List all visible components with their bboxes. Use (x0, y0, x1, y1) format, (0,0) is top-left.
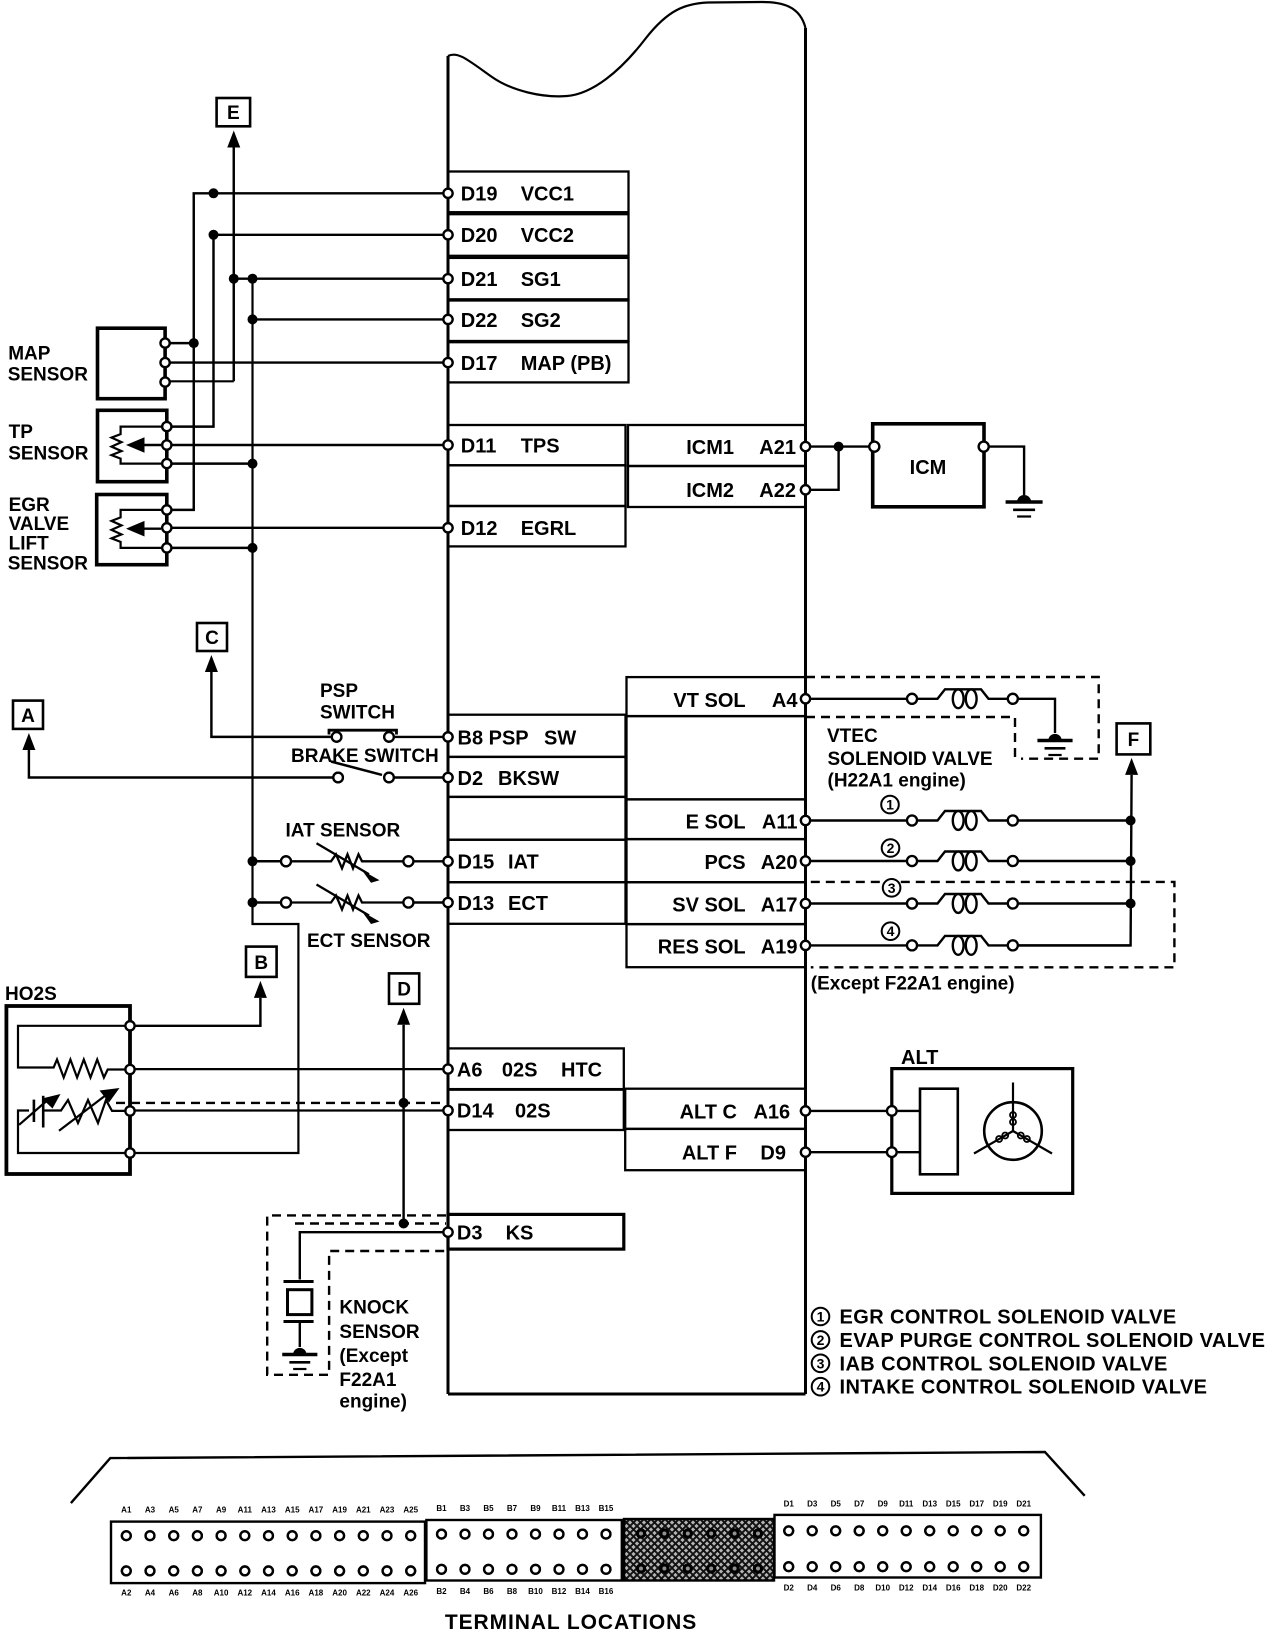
ECM row box (blank) (448, 797, 626, 840)
svg-text:2: 2 (817, 1332, 825, 1348)
connector ref C (197, 623, 227, 651)
svg-text:A3: A3 (145, 1506, 156, 1515)
pin A21 (801, 442, 810, 451)
svg-text:D4: D4 (807, 1584, 818, 1593)
pin A17 (801, 899, 810, 908)
svg-text:F: F (1128, 730, 1140, 751)
svg-text:PCS: PCS (704, 852, 745, 874)
wire B to HO2S pin1 (134, 998, 260, 1026)
terminal box A6 02S HTC (448, 1048, 624, 1089)
junction SG rail / EGR pin3 (248, 543, 258, 553)
VTEC dashed enclosure (806, 677, 1099, 759)
ICM ground (1017, 495, 1031, 502)
pin A22 (801, 485, 810, 494)
connector ref E (217, 98, 251, 126)
terminal box D20 VCC2 (448, 214, 629, 256)
svg-text:ICM: ICM (910, 457, 947, 479)
connector C block (shaded, not used) (624, 1519, 774, 1581)
MAP sensor box (98, 328, 166, 399)
svg-text:D17: D17 (969, 1500, 984, 1509)
pin D20 (443, 230, 452, 239)
svg-text:A8: A8 (192, 1589, 203, 1598)
wire A21 to ICM (806, 445, 870, 447)
pin B8 (443, 732, 452, 741)
terminal box ALT C A16 (625, 1089, 805, 1129)
svg-text:VTEC: VTEC (827, 726, 878, 747)
svg-text:TPS: TPS (521, 435, 560, 457)
svg-text:D11: D11 (461, 435, 497, 457)
HO2S heater resistor (18, 1026, 126, 1078)
svg-text:VCC1: VCC1 (521, 184, 574, 206)
svg-text:(H22A1 engine): (H22A1 engine) (828, 770, 966, 791)
svg-text:D15: D15 (946, 1500, 961, 1509)
svg-text:PSP: PSP (320, 681, 358, 702)
connector panel outline (71, 1452, 1085, 1503)
terminal box ICM2 A22 (628, 466, 806, 507)
svg-text:A14: A14 (261, 1589, 276, 1598)
junction A21/A22 (834, 442, 844, 452)
svg-text:MAP: MAP (8, 343, 51, 364)
svg-text:D16: D16 (946, 1584, 961, 1593)
pin D12 (443, 523, 452, 532)
connector D block (775, 1515, 1041, 1578)
svg-text:A19: A19 (332, 1506, 347, 1515)
wire D21 SG1 row (234, 278, 448, 280)
svg-text:D11: D11 (899, 1500, 914, 1509)
svg-text:B13: B13 (575, 1504, 590, 1513)
EGR pin 3 (162, 543, 171, 552)
wire MAP pin2 to D17 (165, 361, 448, 363)
svg-text:D17: D17 (461, 353, 498, 375)
svg-text:VALVE: VALVE (9, 514, 70, 535)
terminal box VT SOL A4 (627, 677, 806, 716)
terminal box E SOL A11 (627, 799, 806, 839)
EGR valve lift sensor box (97, 495, 167, 565)
pin D15 (443, 857, 452, 866)
svg-text:SV SOL: SV SOL (672, 895, 745, 917)
svg-text:SOLENOID VALVE: SOLENOID VALVE (828, 749, 993, 770)
wire ECT to D13 (413, 901, 448, 903)
wire D to O2S/KS net (402, 1025, 404, 1224)
MAP pin 2 (161, 358, 170, 367)
svg-text:SW: SW (544, 727, 576, 749)
svg-text:B16: B16 (599, 1587, 614, 1596)
wire IAT to D15 (413, 860, 448, 862)
svg-text:02S: 02S (502, 1059, 538, 1081)
svg-text:D20: D20 (461, 225, 498, 247)
HO2S pin 1 (125, 1021, 134, 1030)
svg-text:1: 1 (817, 1309, 825, 1325)
pin A20 (801, 856, 810, 865)
svg-text:A17: A17 (761, 895, 798, 917)
terminal box D12 EGRL (448, 506, 626, 546)
svg-text:A11: A11 (762, 812, 798, 834)
wire EGR pin3 to SG rail (167, 547, 253, 549)
svg-text:(Except F22A1 engine): (Except F22A1 engine) (811, 974, 1015, 995)
pin D2 (443, 773, 452, 782)
svg-text:A21: A21 (356, 1506, 371, 1515)
svg-text:SENSOR: SENSOR (8, 553, 89, 574)
svg-text:EGR: EGR (9, 495, 50, 516)
svg-text:D: D (397, 980, 411, 1001)
wire MAP pin1 (165, 342, 194, 344)
svg-text:A7: A7 (192, 1506, 203, 1515)
junction VCC rail / D19 (209, 188, 219, 198)
wire brake switch to D2 (394, 776, 448, 778)
solenoid 1 circled number (881, 796, 899, 814)
svg-text:D7: D7 (854, 1500, 865, 1509)
pin A4 (801, 694, 810, 703)
svg-text:EGRL: EGRL (521, 518, 577, 540)
TP potentiometer (112, 427, 162, 464)
legend item 3 (812, 1355, 830, 1373)
HO2S box (6, 1006, 130, 1174)
wire E to SG1/MAP (233, 148, 235, 382)
svg-text:VT SOL: VT SOL (673, 690, 745, 712)
pin D13 (443, 898, 452, 907)
svg-text:A6: A6 (169, 1589, 180, 1598)
EGR potentiometer (112, 510, 162, 548)
legend item 2 (812, 1331, 830, 1349)
svg-text:D9: D9 (760, 1143, 786, 1165)
legend item 1 (812, 1308, 830, 1326)
svg-text:D15: D15 (458, 852, 495, 874)
wire A4 to VTEC solenoid (806, 698, 908, 700)
svg-text:B10: B10 (528, 1587, 543, 1596)
svg-text:A17: A17 (309, 1506, 324, 1515)
svg-text:MAP (PB): MAP (PB) (521, 353, 612, 375)
pin D21 (443, 274, 452, 283)
MAP pin 1 (161, 339, 170, 348)
svg-text:D6: D6 (831, 1584, 842, 1593)
svg-text:A1: A1 (121, 1506, 132, 1515)
svg-text:D2: D2 (458, 768, 484, 790)
Except F22A1 dashed enclosure (811, 882, 1175, 967)
wire solenoid 2 to F line (1018, 860, 1131, 862)
HO2S pin 4 (125, 1148, 134, 1157)
pin D17 (443, 358, 452, 367)
solenoid 4 coil (907, 940, 917, 950)
svg-text:IAT SENSOR: IAT SENSOR (286, 820, 401, 841)
junction F/SV SOL (1126, 899, 1136, 909)
ECM top torn edge (448, 2, 806, 96)
svg-text:B9: B9 (530, 1504, 541, 1513)
svg-text:B1: B1 (436, 1504, 447, 1513)
wire A22 to ICM net (806, 447, 839, 490)
svg-text:ICM1: ICM1 (686, 437, 734, 459)
svg-text:A5: A5 (169, 1506, 180, 1515)
connector ref A (13, 701, 43, 729)
solenoid 2 coil (907, 856, 917, 866)
svg-text:A2: A2 (121, 1589, 132, 1598)
ECT thermistor (281, 898, 291, 908)
IAT thermistor (281, 856, 291, 866)
MAP pin 3 (161, 378, 170, 387)
svg-text:D1: D1 (784, 1500, 795, 1509)
wire VTEC solenoid to ground (1018, 699, 1055, 733)
svg-text:A22: A22 (356, 1589, 371, 1598)
TP pin 1 (162, 422, 171, 431)
svg-text:A23: A23 (380, 1506, 395, 1515)
svg-text:D19: D19 (461, 184, 498, 206)
svg-text:INTAKE CONTROL SOLENOID VALVE: INTAKE CONTROL SOLENOID VALVE (840, 1377, 1208, 1399)
connector ref B (246, 947, 277, 977)
wire TP pin2 to D11 (167, 444, 448, 446)
ALT regulator (920, 1089, 958, 1175)
svg-text:EVAP PURGE CONTROL SOLENOID VA: EVAP PURGE CONTROL SOLENOID VALVE (840, 1330, 1266, 1352)
EGR pin 2 (162, 523, 171, 532)
pin D3 (443, 1228, 452, 1237)
svg-text:D12: D12 (461, 518, 498, 540)
terminal box D17 MAP (PB) (448, 342, 629, 382)
ALT 3-phase windings (984, 1102, 1042, 1160)
svg-text:A26: A26 (403, 1589, 418, 1598)
svg-text:A4: A4 (772, 690, 798, 712)
wire knock sensor to D3 (300, 1232, 448, 1279)
junction F/PCS (1126, 856, 1136, 866)
svg-text:1: 1 (886, 797, 894, 813)
ECM row box (blank, right column) (627, 716, 806, 799)
svg-text:B3: B3 (460, 1504, 471, 1513)
terminal box D3 KS (448, 1214, 624, 1249)
wire VCC2 rail (D20 to TP pin1) (167, 235, 448, 427)
brake switch (333, 773, 343, 783)
junction SG rail / SG2 (248, 314, 258, 324)
svg-text:SG2: SG2 (521, 310, 561, 332)
svg-text:B14: B14 (575, 1587, 590, 1596)
knock sensor dashed enclosure (267, 1215, 446, 1374)
junction SG rail / IAT (248, 856, 258, 866)
wire VCC1 rail (D19 to MAP/EGR pin1) (167, 193, 448, 510)
junction SG rail / SG1 (248, 274, 258, 284)
svg-text:3: 3 (817, 1355, 825, 1371)
svg-text:BKSW: BKSW (498, 768, 559, 790)
wire TP pin3 to SG rail (167, 462, 253, 464)
svg-text:2: 2 (887, 840, 895, 856)
wire D9 to ALT (806, 1151, 888, 1153)
svg-text:A19: A19 (761, 936, 798, 958)
ALT box (892, 1069, 1073, 1194)
solenoid 3 circled number (883, 879, 901, 897)
wire EGR pin2 to D12 (167, 527, 448, 529)
dashed wire O2S signal to D14 (116, 1102, 443, 1104)
terminal box D19 VCC1 (448, 172, 629, 213)
connector B block (426, 1520, 621, 1581)
svg-text:A9: A9 (216, 1506, 227, 1515)
svg-text:E SOL: E SOL (686, 812, 746, 834)
ECM bottom edge (448, 1393, 806, 1396)
solenoid 3 coil (907, 899, 917, 909)
wire SG rail to IAT (253, 860, 282, 863)
svg-text:KNOCK: KNOCK (339, 1298, 409, 1319)
svg-text:B4: B4 (460, 1587, 471, 1596)
svg-text:A16: A16 (753, 1101, 790, 1123)
knock sensor (piezo element) (284, 1280, 314, 1283)
terminal box D13 ECT (448, 882, 626, 924)
pin D22 (443, 315, 452, 324)
wire ICM to ground (989, 447, 1024, 495)
svg-text:D22: D22 (461, 310, 498, 332)
wire MAP pin3 to E line (165, 380, 234, 382)
svg-text:D13: D13 (922, 1500, 937, 1509)
HO2S pin 3 (125, 1106, 134, 1115)
ECM row box (blank, left of ICM2) (448, 465, 626, 506)
terminal box ALT F D9 (625, 1129, 805, 1170)
svg-text:A20: A20 (332, 1589, 347, 1598)
wire A to brake switch (29, 750, 333, 778)
wire A-pin to solenoid 3 (806, 902, 908, 904)
junction VCC1 / MAP pin1 (189, 338, 199, 348)
svg-text:02S: 02S (515, 1101, 551, 1123)
pin A16 (801, 1106, 810, 1115)
svg-text:3: 3 (888, 880, 896, 896)
ALT pin F (887, 1147, 897, 1157)
HO2S pin 2 (125, 1065, 134, 1074)
ECM left edge (447, 56, 450, 1394)
svg-text:engine): engine) (339, 1391, 407, 1412)
svg-text:B12: B12 (552, 1587, 567, 1596)
svg-text:D10: D10 (875, 1584, 890, 1593)
pin A19 (801, 941, 810, 950)
svg-text:SENSOR: SENSOR (8, 443, 89, 464)
svg-text:B11: B11 (552, 1504, 567, 1513)
svg-text:B8: B8 (507, 1587, 518, 1596)
knock sensor ground (293, 1348, 306, 1355)
TP sensor box (98, 410, 167, 481)
PSP switch (332, 732, 342, 742)
junction E line / SG1 (229, 274, 239, 284)
pin D19 (443, 189, 452, 198)
solenoid 1 coil (907, 816, 917, 826)
HO2S sensor element (variable resistor + capacitor) (18, 1111, 126, 1154)
svg-text:TERMINAL LOCATIONS: TERMINAL LOCATIONS (445, 1611, 697, 1634)
wire PSP to B8 (394, 736, 448, 738)
svg-text:BRAKE SWITCH: BRAKE SWITCH (291, 746, 439, 767)
wire solenoid 4 to F line (1018, 944, 1131, 946)
ICM box (873, 424, 984, 507)
svg-text:ALT C: ALT C (680, 1101, 737, 1123)
svg-text:D9: D9 (878, 1500, 889, 1509)
svg-text:EGR CONTROL SOLENOID VALVE: EGR CONTROL SOLENOID VALVE (840, 1307, 1177, 1329)
pin D11 (443, 440, 452, 449)
pin A6 (443, 1065, 452, 1074)
solenoid 2 circled number (882, 839, 900, 857)
svg-text:4: 4 (817, 1379, 825, 1395)
svg-text:D5: D5 (831, 1500, 842, 1509)
svg-text:TP: TP (9, 422, 34, 443)
svg-text:A13: A13 (261, 1506, 276, 1515)
pin D14 (443, 1106, 452, 1115)
svg-text:D13: D13 (458, 893, 495, 915)
svg-text:D14: D14 (457, 1101, 495, 1123)
svg-text:B15: B15 (599, 1504, 614, 1513)
junction SG rail / TP pin3 (248, 459, 258, 469)
terminal box B8 PSP SW (448, 715, 626, 757)
wire F to solenoid commons (1018, 775, 1132, 946)
svg-text:D12: D12 (899, 1584, 914, 1593)
svg-text:D21: D21 (461, 269, 498, 291)
wire HO2S pin3 to D14 (134, 1109, 448, 1111)
junction F/E SOL (1126, 816, 1136, 826)
wire SG rail to ECT (253, 901, 282, 903)
ICM output pin (979, 442, 989, 452)
VTEC solenoid coil (907, 694, 917, 704)
ECM right edge (804, 28, 807, 1394)
svg-text:ICM2: ICM2 (686, 480, 734, 502)
terminal box D15 IAT (448, 840, 626, 883)
svg-text:SWITCH: SWITCH (320, 703, 395, 724)
svg-text:SENSOR: SENSOR (8, 365, 89, 386)
svg-text:D2: D2 (784, 1584, 795, 1593)
junction D/O2S dashed wire (399, 1098, 409, 1108)
svg-text:(Except: (Except (339, 1346, 408, 1367)
svg-text:D14: D14 (922, 1584, 937, 1593)
svg-text:A12: A12 (237, 1589, 252, 1598)
svg-text:IAB CONTROL SOLENOID VALVE: IAB CONTROL SOLENOID VALVE (840, 1353, 1168, 1375)
svg-text:ALT F: ALT F (682, 1143, 737, 1165)
svg-text:A10: A10 (214, 1589, 229, 1598)
svg-text:C: C (205, 628, 219, 649)
svg-text:HTC: HTC (561, 1059, 602, 1081)
svg-text:B8 PSP: B8 PSP (458, 727, 529, 749)
svg-text:A15: A15 (285, 1506, 300, 1515)
wire solenoid 3 to F line (1018, 902, 1131, 904)
svg-text:SG1: SG1 (521, 269, 561, 291)
pin D9 (801, 1148, 810, 1157)
svg-text:E: E (227, 103, 240, 124)
svg-text:KS: KS (506, 1223, 534, 1245)
terminal box D14 02S (448, 1090, 624, 1130)
connector ref D (389, 973, 419, 1003)
wire HO2S heater to A6 (134, 1068, 448, 1070)
svg-text:VCC2: VCC2 (521, 225, 574, 247)
svg-text:A11: A11 (238, 1506, 253, 1515)
svg-text:A6: A6 (457, 1059, 483, 1081)
solenoid 4 circled number (882, 922, 900, 940)
svg-text:B6: B6 (483, 1587, 494, 1596)
terminal box D11 TPS (448, 425, 626, 465)
legend item 4 (812, 1378, 830, 1396)
junction D/KS dashed wire (399, 1219, 409, 1229)
wire A-pin to solenoid 4 (806, 944, 908, 946)
svg-text:A18: A18 (309, 1589, 324, 1598)
svg-text:A24: A24 (380, 1589, 395, 1598)
ICM input pin (869, 442, 879, 452)
svg-text:D20: D20 (993, 1584, 1008, 1593)
TP pin 2 (162, 440, 171, 449)
svg-text:RES SOL: RES SOL (658, 936, 746, 958)
svg-text:HO2S: HO2S (5, 984, 57, 1005)
terminal box PCS A20 (627, 839, 806, 882)
svg-text:SENSOR: SENSOR (339, 1322, 420, 1343)
terminal box D21 SG1 (448, 258, 629, 299)
svg-text:D3: D3 (457, 1223, 483, 1245)
wire D22 SG2 row (253, 318, 449, 320)
pin circle overlay (redraw open circles above wires) (122, 189, 1028, 1576)
svg-text:B: B (254, 953, 268, 974)
EGR pin 1 (162, 505, 171, 514)
wire solenoid 1 to F line (1018, 819, 1131, 821)
svg-text:ALT: ALT (901, 1047, 938, 1069)
svg-text:A16: A16 (285, 1589, 300, 1598)
TP pin 3 (162, 459, 171, 468)
terminal box D22 SG2 (448, 301, 629, 342)
svg-text:D22: D22 (1016, 1584, 1031, 1593)
svg-text:ECT: ECT (508, 893, 548, 915)
svg-text:B2: B2 (436, 1587, 447, 1596)
terminal box RES SOL A19 (627, 924, 806, 967)
wire A-pin to solenoid 1 (806, 819, 908, 821)
